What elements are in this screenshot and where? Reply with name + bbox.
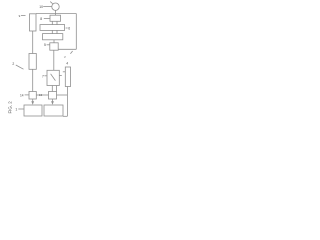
svg-text:1: 1: [15, 108, 17, 112]
svg-text:13: 13: [39, 93, 43, 97]
box 9 tall: [30, 14, 37, 31]
dash left of box 4: [63, 71, 65, 73]
leader tick 11: [50, 2, 52, 4]
wire box5 to box7: [53, 50, 55, 70]
small tick near node 4: [64, 56, 66, 59]
switch diagonal in box 7: [51, 74, 56, 81]
wire arrow into box 1: [32, 99, 34, 102]
wide box W2: [43, 34, 63, 40]
pair wires W1 to W2: [51, 30, 53, 33]
thread guide circle 10: [52, 3, 59, 10]
label 1 dash: [18, 108, 24, 110]
box 7: [47, 70, 59, 85]
wire arrow into box 3: [52, 99, 54, 102]
box 14: [29, 92, 36, 100]
svg-text:2: 2: [12, 62, 14, 66]
background: [0, 0, 83, 120]
horizontal wire into node 5: [58, 48, 76, 50]
wire circle to box 8: [55, 10, 57, 15]
label 7 dash: [44, 75, 47, 77]
arrowhead into box 1: [31, 101, 34, 104]
box 2 tall: [29, 54, 36, 70]
label 6 dash: [66, 27, 68, 29]
arrow tick near node 4: [70, 51, 72, 54]
wire W2 to box 5: [53, 40, 55, 43]
wire box4 down: [66, 87, 68, 117]
label 5 dash: [47, 44, 50, 46]
pair wires box7 to box13: [51, 86, 53, 92]
arrowhead into box 3: [51, 101, 54, 104]
leader line label 2: [16, 65, 24, 69]
svg-text:FIG. 2: FIG. 2: [8, 101, 13, 114]
leader wire to circle 10: [43, 6, 52, 8]
box 5: [50, 43, 58, 50]
box 4 tall: [65, 67, 70, 87]
svg-text:7: 7: [42, 74, 44, 78]
wire corner bottom right: [63, 115, 67, 117]
right vertical wire: [75, 14, 77, 50]
svg-text:8: 8: [40, 17, 42, 21]
svg-text:4: 4: [66, 62, 68, 66]
label 9 dash: [21, 15, 26, 17]
box 8: [50, 15, 61, 21]
pair wires box8 to W1: [51, 21, 53, 24]
label 8 dash: [44, 17, 50, 19]
svg-text:6: 6: [68, 27, 70, 31]
box 13: [49, 92, 57, 100]
dash right of box 7: [59, 75, 61, 77]
svg-text:5: 5: [44, 43, 46, 47]
wire box13 to right wire: [57, 94, 68, 96]
label 14 dash: [25, 94, 29, 96]
svg-text:10: 10: [39, 5, 43, 9]
wide box W1: [40, 25, 65, 31]
bottom box 3: [44, 105, 63, 116]
wire box14 to box13: [36, 94, 48, 96]
bottom box 1: [24, 105, 42, 116]
wire box9 to box2: [32, 31, 34, 54]
long horizontal wire: [36, 13, 76, 15]
wire box2 to box14: [32, 69, 34, 91]
svg-text:14: 14: [20, 94, 24, 98]
